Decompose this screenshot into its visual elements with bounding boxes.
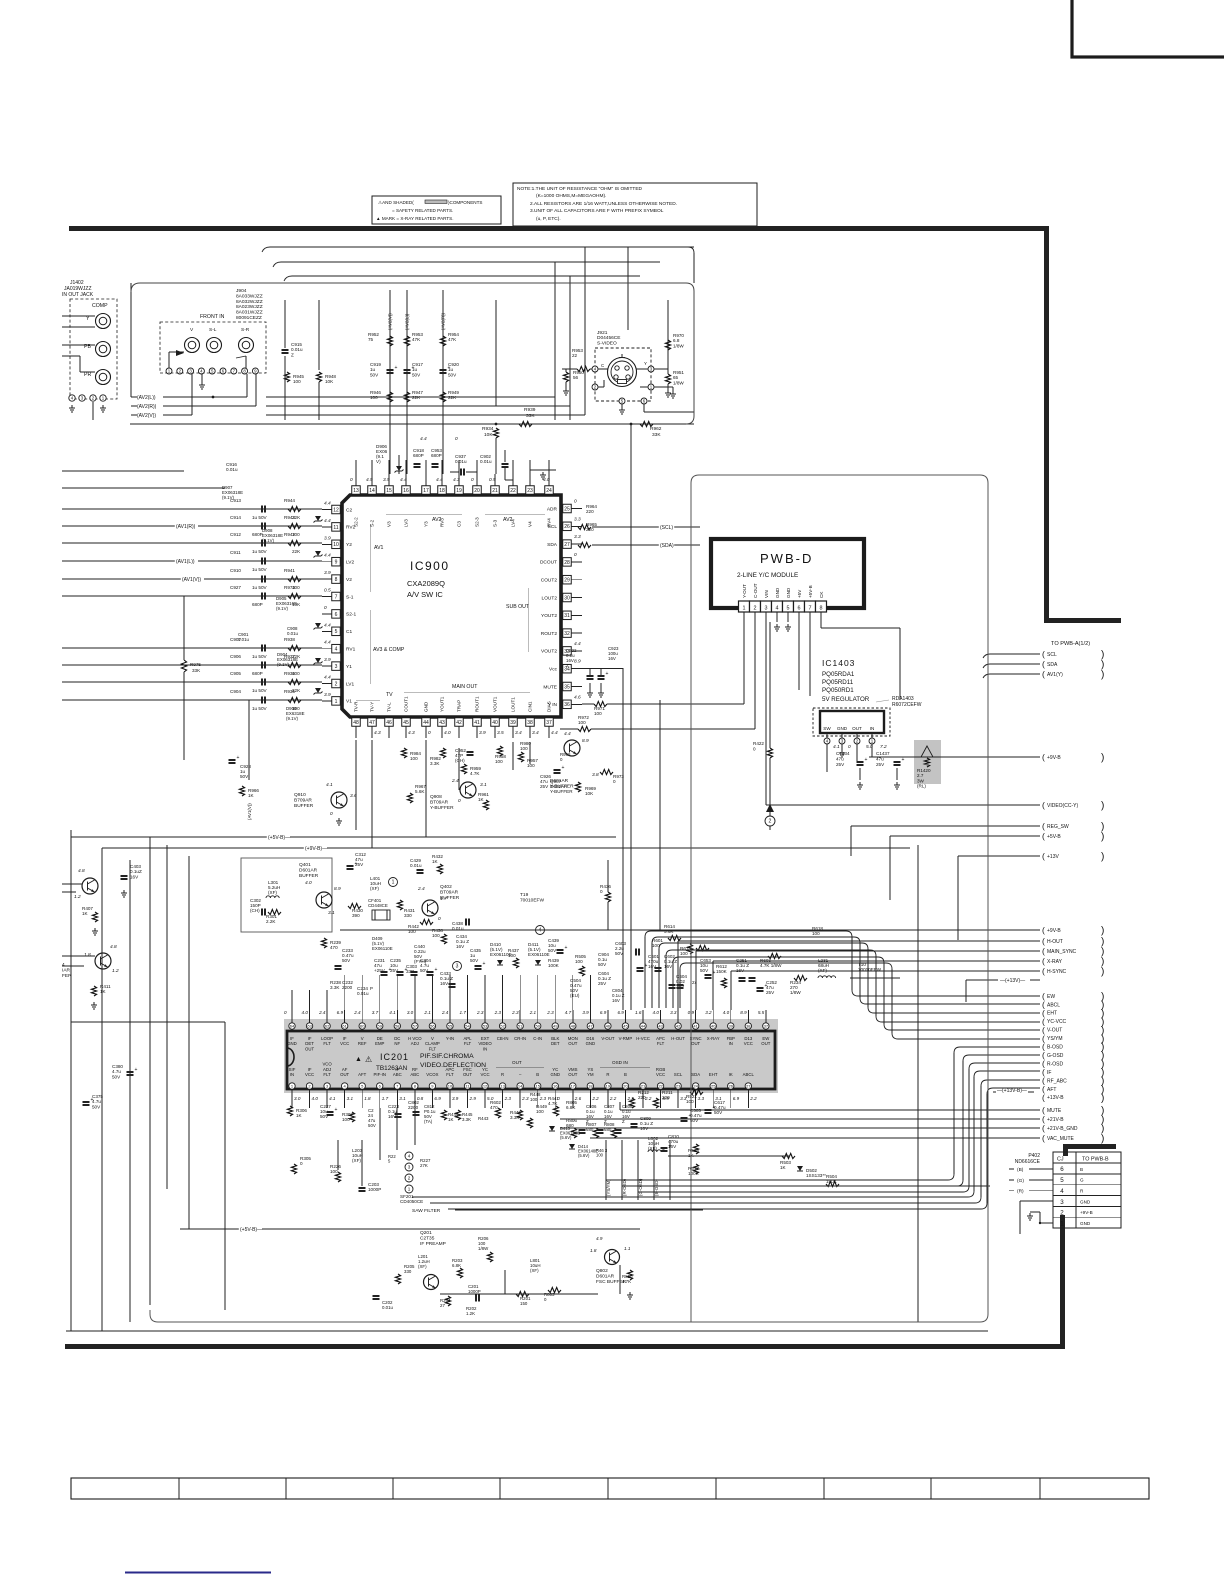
svg-text:IN: IN bbox=[870, 726, 875, 731]
svg-text:CD4050CE: CD4050CE bbox=[400, 1199, 423, 1204]
svg-text:G-OSD: G-OSD bbox=[1047, 1053, 1064, 1059]
svg-text:+21V-B: +21V-B bbox=[1047, 1117, 1064, 1123]
svg-text:15: 15 bbox=[386, 488, 392, 494]
svg-text:C905: C905 bbox=[230, 671, 241, 676]
svg-text:C927: C927 bbox=[230, 585, 241, 590]
svg-text:IN: IN bbox=[483, 1046, 487, 1051]
svg-text:0.5: 0.5 bbox=[324, 588, 331, 594]
svg-text:3.3K: 3.3K bbox=[430, 761, 440, 766]
svg-text:1K: 1K bbox=[248, 793, 255, 798]
svg-text:C3: C3 bbox=[457, 521, 462, 527]
svg-text:EW: EW bbox=[1047, 994, 1055, 1000]
svg-text:AV1(Y): AV1(Y) bbox=[1047, 672, 1063, 678]
svg-text:+: + bbox=[765, 983, 768, 989]
svg-text:7.2: 7.2 bbox=[880, 744, 887, 750]
svg-text:470: 470 bbox=[330, 945, 338, 950]
svg-text:(SDA): (SDA) bbox=[660, 543, 674, 549]
svg-text:TV: TV bbox=[386, 692, 393, 698]
svg-text:47: 47 bbox=[588, 1024, 593, 1029]
svg-text:4.4: 4.4 bbox=[420, 436, 427, 442]
svg-text:PR: PR bbox=[84, 372, 91, 378]
svg-text:150: 150 bbox=[520, 1301, 528, 1306]
svg-text:+: + bbox=[865, 757, 868, 763]
svg-text:1K: 1K bbox=[432, 859, 439, 864]
svg-text:(CH): (CH) bbox=[455, 758, 465, 763]
svg-text:ROUT2: ROUT2 bbox=[541, 631, 558, 637]
svg-text:3.1: 3.1 bbox=[399, 1096, 406, 1101]
svg-text:⚠AND SHADED(: ⚠AND SHADED( bbox=[378, 200, 414, 205]
svg-text:SDA: SDA bbox=[691, 1072, 700, 1077]
svg-text:(K=1000 OHMS,M=MEGAOHM).: (K=1000 OHMS,M=MEGAOHM). bbox=[536, 193, 606, 199]
svg-text:100: 100 bbox=[686, 1099, 694, 1104]
svg-text:GND: GND bbox=[775, 587, 780, 598]
svg-text:100: 100 bbox=[370, 395, 378, 400]
svg-text:▲: ▲ bbox=[355, 1056, 362, 1063]
svg-text:J921: J921 bbox=[597, 330, 608, 336]
svg-text:CR-IN: CR-IN bbox=[514, 1036, 526, 1041]
svg-text:S2-3: S2-3 bbox=[475, 517, 480, 527]
svg-text:0.01u: 0.01u bbox=[480, 459, 492, 464]
svg-text:T19: T19 bbox=[520, 892, 529, 898]
svg-text:15: 15 bbox=[535, 1084, 540, 1089]
svg-text:37: 37 bbox=[764, 1024, 769, 1029]
svg-text:OUT: OUT bbox=[691, 1041, 700, 1046]
svg-text:4: 4 bbox=[776, 606, 779, 612]
svg-text:17: 17 bbox=[571, 1084, 576, 1089]
svg-text:8A031WJZZ: 8A031WJZZ bbox=[236, 310, 263, 316]
svg-text:R962: R962 bbox=[650, 426, 662, 432]
svg-text:FLT: FLT bbox=[657, 1041, 665, 1046]
svg-text:21: 21 bbox=[492, 488, 498, 494]
svg-text:MUTE: MUTE bbox=[1047, 1108, 1062, 1114]
svg-text:25V: 25V bbox=[876, 762, 885, 767]
svg-text:33K: 33K bbox=[192, 668, 201, 673]
svg-text:LOUT2: LOUT2 bbox=[542, 595, 558, 601]
svg-text:4.7K: 4.7K bbox=[470, 771, 480, 776]
svg-text:3: 3 bbox=[408, 1165, 411, 1170]
svg-text:3.3: 3.3 bbox=[574, 534, 581, 540]
svg-text:(: ( bbox=[1042, 946, 1045, 956]
svg-text:GND: GND bbox=[786, 587, 791, 598]
svg-text:1u 50V: 1u 50V bbox=[252, 515, 267, 520]
svg-text:S-L: S-L bbox=[209, 327, 217, 333]
svg-text:4.4: 4.4 bbox=[324, 640, 331, 646]
svg-text:39: 39 bbox=[729, 1024, 734, 1029]
svg-text:1.2: 1.2 bbox=[74, 894, 81, 900]
svg-text:50V: 50V bbox=[240, 774, 249, 779]
svg-text:DCOUT: DCOUT bbox=[540, 560, 557, 566]
svg-text:C: C bbox=[601, 363, 604, 368]
svg-text:+: + bbox=[355, 861, 358, 867]
svg-text:3.1: 3.1 bbox=[480, 782, 487, 788]
svg-text:6.9: 6.9 bbox=[733, 1096, 740, 1101]
svg-text:X-RAY: X-RAY bbox=[707, 1036, 720, 1041]
svg-text:8.9: 8.9 bbox=[582, 738, 589, 744]
svg-text:0: 0 bbox=[574, 499, 577, 505]
svg-text:+: + bbox=[483, 961, 486, 967]
svg-text:6.9: 6.9 bbox=[617, 1010, 624, 1015]
svg-text:3.7: 3.7 bbox=[372, 1010, 379, 1015]
svg-text:(XF): (XF) bbox=[268, 890, 277, 895]
svg-text:3.8: 3.8 bbox=[592, 772, 599, 778]
svg-text:B: B bbox=[536, 1072, 539, 1077]
svg-text:▲ MARK = X-RAY RELATED PARTS.: ▲ MARK = X-RAY RELATED PARTS. bbox=[376, 216, 454, 221]
svg-text:62: 62 bbox=[325, 1024, 330, 1029]
svg-text:58: 58 bbox=[395, 1024, 400, 1029]
svg-text:(: ( bbox=[1042, 1123, 1045, 1133]
svg-text:3.5: 3.5 bbox=[497, 730, 504, 736]
svg-text:R939: R939 bbox=[524, 407, 536, 413]
svg-text:25: 25 bbox=[564, 506, 570, 512]
svg-text:4.0: 4.0 bbox=[444, 730, 451, 736]
svg-text:50V: 50V bbox=[470, 958, 479, 963]
svg-text:0: 0 bbox=[455, 436, 458, 442]
svg-text:1K: 1K bbox=[82, 911, 89, 916]
svg-text:+: + bbox=[91, 1097, 94, 1103]
svg-text:22: 22 bbox=[658, 1084, 663, 1089]
svg-text:Q910: Q910 bbox=[294, 792, 306, 798]
svg-text:YS/YM: YS/YM bbox=[1047, 1036, 1063, 1042]
svg-text:51: 51 bbox=[518, 1024, 523, 1029]
svg-text:22: 22 bbox=[572, 353, 578, 358]
svg-text:(AV2(R)): (AV2(R)) bbox=[137, 404, 157, 410]
svg-text:(SCL): (SCL) bbox=[660, 525, 673, 531]
svg-text:+13V: +13V bbox=[1047, 854, 1059, 860]
svg-text:2.4: 2.4 bbox=[318, 1010, 326, 1015]
svg-text:2.9: 2.9 bbox=[469, 1096, 477, 1101]
svg-text:Y-BUFFER: Y-BUFFER bbox=[430, 805, 454, 811]
svg-text:4.8: 4.8 bbox=[110, 944, 117, 950]
svg-text:LOUT1: LOUT1 bbox=[511, 697, 516, 712]
svg-text:C910: C910 bbox=[230, 568, 241, 573]
svg-text:22K: 22K bbox=[412, 395, 421, 400]
svg-text:): ) bbox=[1101, 832, 1104, 843]
svg-text:1/8W: 1/8W bbox=[790, 990, 801, 995]
svg-text:Y: Y bbox=[644, 361, 647, 366]
svg-text:OUT: OUT bbox=[340, 1072, 349, 1077]
svg-text:0.01u: 0.01u bbox=[287, 631, 299, 636]
svg-text:OSD IN: OSD IN bbox=[612, 1060, 628, 1065]
svg-text:56: 56 bbox=[573, 375, 579, 380]
svg-text:1: 1 bbox=[408, 1187, 411, 1192]
svg-text:Z: Z bbox=[622, 1119, 625, 1124]
svg-text:2.1: 2.1 bbox=[529, 1010, 537, 1015]
svg-text:IN OUT JACK: IN OUT JACK bbox=[62, 292, 94, 298]
svg-text:+5V-B: +5V-B bbox=[1047, 834, 1061, 840]
svg-text:GND: GND bbox=[837, 726, 848, 731]
svg-text:(AV1(V)): (AV1(V)) bbox=[182, 577, 201, 583]
svg-text:C2T35: C2T35 bbox=[420, 1236, 435, 1242]
svg-text:+13V-B: +13V-B bbox=[1047, 1095, 1064, 1101]
svg-text:X-RAY: X-RAY bbox=[1047, 959, 1063, 965]
svg-text:2.4: 2.4 bbox=[441, 1010, 449, 1015]
svg-text:1.8: 1.8 bbox=[84, 952, 91, 958]
svg-text:VCC: VCC bbox=[481, 1072, 490, 1077]
svg-text:24: 24 bbox=[546, 488, 552, 494]
svg-text:40: 40 bbox=[492, 720, 498, 726]
svg-text:18: 18 bbox=[439, 488, 445, 494]
svg-text:TO PWB-B: TO PWB-B bbox=[1082, 1157, 1109, 1163]
svg-text:MUTE: MUTE bbox=[543, 684, 557, 690]
svg-text:3.9: 3.9 bbox=[452, 1096, 459, 1101]
svg-text:2: 2 bbox=[408, 1176, 411, 1181]
svg-text:C1: C1 bbox=[346, 629, 352, 635]
svg-text:0.01u: 0.01u bbox=[238, 637, 250, 642]
svg-text:(+9V-B)—: (+9V-B)— bbox=[305, 846, 327, 852]
svg-text:2.4: 2.4 bbox=[417, 886, 425, 892]
svg-text:VOUT1: VOUT1 bbox=[493, 696, 498, 712]
svg-text:4.0: 4.0 bbox=[312, 1096, 319, 1101]
svg-text:(XF): (XF) bbox=[818, 968, 827, 973]
svg-text:100: 100 bbox=[594, 711, 602, 716]
svg-text:1u 50V: 1u 50V bbox=[252, 585, 267, 590]
svg-text:100: 100 bbox=[342, 1117, 350, 1122]
svg-text:R: R bbox=[606, 1072, 609, 1077]
svg-text:4.7: 4.7 bbox=[565, 1010, 572, 1015]
svg-text:Q201: Q201 bbox=[420, 1230, 432, 1236]
svg-text:4.0: 4.0 bbox=[302, 1010, 309, 1015]
svg-text:25V: 25V bbox=[766, 990, 775, 995]
svg-text:(+5V-B)—: (+5V-B)— bbox=[240, 1227, 262, 1233]
svg-text:38: 38 bbox=[746, 1024, 751, 1029]
svg-text:100: 100 bbox=[293, 379, 301, 384]
svg-text:4.7K: 4.7K bbox=[548, 1101, 558, 1106]
svg-text:26: 26 bbox=[729, 1084, 734, 1089]
svg-text:EHT: EHT bbox=[709, 1072, 718, 1077]
svg-text:3.4: 3.4 bbox=[532, 730, 539, 736]
svg-text:8A032WJZZ: 8A032WJZZ bbox=[236, 299, 263, 305]
svg-text:+: + bbox=[902, 757, 905, 763]
svg-text:Y IN: Y IN bbox=[548, 702, 558, 708]
svg-text:100: 100 bbox=[812, 931, 820, 936]
svg-text:4.1: 4.1 bbox=[326, 782, 333, 788]
svg-text:50V: 50V bbox=[412, 372, 421, 377]
svg-text:25V: 25V bbox=[836, 762, 845, 767]
svg-text:PQ050RD1: PQ050RD1 bbox=[822, 687, 854, 694]
svg-text:70010EFW: 70010EFW bbox=[520, 898, 544, 904]
svg-text:R943: R943 bbox=[284, 515, 295, 520]
svg-text:2.4: 2.4 bbox=[451, 778, 459, 784]
svg-text:R936: R936 bbox=[284, 671, 295, 676]
svg-text:6: 6 bbox=[335, 612, 338, 618]
svg-text:0: 0 bbox=[330, 811, 333, 817]
svg-text:1.8: 1.8 bbox=[590, 1248, 597, 1253]
svg-text:0: 0 bbox=[300, 1161, 303, 1166]
svg-text:13: 13 bbox=[500, 1084, 505, 1089]
svg-text:2.3: 2.3 bbox=[546, 1010, 554, 1015]
svg-text:2x: 2x bbox=[692, 980, 697, 985]
svg-text:C904: C904 bbox=[230, 689, 241, 694]
svg-text:47K: 47K bbox=[448, 337, 457, 342]
svg-text:AFT: AFT bbox=[1047, 1087, 1056, 1093]
svg-text:Y1: Y1 bbox=[346, 664, 352, 670]
svg-text:(9.1V): (9.1V) bbox=[222, 495, 234, 500]
svg-text:1u 50V: 1u 50V bbox=[252, 688, 267, 693]
svg-text:2.2: 2.2 bbox=[609, 1096, 617, 1101]
svg-text:C2: C2 bbox=[346, 507, 352, 513]
svg-text:11: 11 bbox=[333, 525, 338, 531]
svg-text:50V: 50V bbox=[370, 372, 379, 377]
svg-text:1/8W: 1/8W bbox=[478, 1246, 489, 1251]
svg-text:OUT: OUT bbox=[568, 1041, 577, 1046]
svg-text:CK: CK bbox=[819, 591, 824, 598]
svg-text:J904: J904 bbox=[236, 288, 247, 294]
svg-text:COUT2: COUT2 bbox=[541, 578, 558, 584]
svg-text:4: 4 bbox=[335, 647, 338, 653]
svg-text:(R-OSD): (R-OSD) bbox=[622, 1178, 627, 1196]
svg-text:Q802: Q802 bbox=[596, 1268, 608, 1274]
svg-text:0: 0 bbox=[574, 552, 577, 558]
svg-text:12: 12 bbox=[333, 507, 339, 513]
svg-text:R203: R203 bbox=[496, 1261, 497, 1262]
svg-text:7: 7 bbox=[335, 594, 338, 600]
svg-text:3.1: 3.1 bbox=[347, 1096, 354, 1101]
svg-text:9: 9 bbox=[335, 560, 338, 566]
svg-text:Z: Z bbox=[291, 352, 294, 357]
svg-text:): ) bbox=[1101, 1093, 1104, 1104]
svg-text:(9.1V): (9.1V) bbox=[262, 538, 274, 543]
svg-text:Q401: Q401 bbox=[299, 862, 311, 868]
svg-text:(+5V-B)—: (+5V-B)— bbox=[268, 835, 290, 841]
svg-text:1K: 1K bbox=[478, 797, 485, 802]
svg-text:23: 23 bbox=[676, 1084, 681, 1089]
svg-text:6.8K: 6.8K bbox=[566, 1105, 576, 1110]
svg-text:4.4: 4.4 bbox=[324, 518, 331, 524]
svg-text:ROUT1: ROUT1 bbox=[475, 696, 480, 712]
svg-text:14: 14 bbox=[369, 488, 375, 494]
svg-text:ABC: ABC bbox=[410, 1072, 419, 1077]
svg-text:EX06110E: EX06110E bbox=[372, 946, 393, 951]
svg-text:S-R: S-R bbox=[241, 327, 250, 333]
svg-text:100: 100 bbox=[432, 933, 440, 938]
svg-text:6: 6 bbox=[1060, 1166, 1064, 1173]
svg-text:RF_ABC: RF_ABC bbox=[1047, 1078, 1067, 1084]
svg-text:FLT: FLT bbox=[429, 1046, 437, 1051]
svg-text:S-1: S-1 bbox=[346, 594, 354, 600]
svg-text:35: 35 bbox=[564, 684, 570, 690]
svg-text:4.7K: 4.7K bbox=[622, 1279, 631, 1284]
svg-text:5: 5 bbox=[1060, 1177, 1064, 1184]
svg-text:IC1403: IC1403 bbox=[822, 658, 855, 668]
svg-text:50V: 50V bbox=[448, 372, 457, 377]
svg-text:50V: 50V bbox=[598, 962, 607, 967]
svg-text:R975: R975 bbox=[190, 662, 201, 667]
svg-text:680P: 680P bbox=[252, 671, 263, 676]
svg-text:27: 27 bbox=[440, 1303, 445, 1308]
svg-text:50V: 50V bbox=[368, 1123, 376, 1128]
svg-text:IF PREAMP: IF PREAMP bbox=[420, 1241, 446, 1247]
svg-text:16V: 16V bbox=[608, 656, 616, 661]
svg-text:1.7: 1.7 bbox=[440, 896, 447, 902]
svg-text:4: 4 bbox=[1060, 1188, 1064, 1195]
svg-text:2.2: 2.2 bbox=[591, 1096, 599, 1101]
svg-text:VCC: VCC bbox=[305, 1072, 314, 1077]
svg-text:55: 55 bbox=[448, 1024, 453, 1029]
svg-text:SAW FILTER: SAW FILTER bbox=[412, 1208, 441, 1214]
svg-text:LV3: LV3 bbox=[404, 519, 409, 527]
svg-text:2.2: 2.2 bbox=[749, 1096, 757, 1101]
svg-text:VAC_MUTE: VAC_MUTE bbox=[1047, 1136, 1075, 1142]
svg-text:36: 36 bbox=[564, 702, 570, 708]
svg-text:100: 100 bbox=[520, 746, 528, 751]
svg-text:Y2: Y2 bbox=[346, 542, 352, 548]
svg-text:TB1263AN: TB1263AN bbox=[376, 1065, 408, 1072]
svg-text:53: 53 bbox=[483, 1024, 488, 1029]
svg-text:AV2: AV2 bbox=[432, 517, 442, 523]
svg-text:+: + bbox=[435, 967, 438, 973]
svg-text:4.1: 4.1 bbox=[833, 744, 840, 750]
svg-text:59: 59 bbox=[378, 1024, 383, 1029]
svg-text:OUT: OUT bbox=[305, 1046, 314, 1051]
svg-text:R6072CEFW: R6072CEFW bbox=[892, 702, 922, 708]
svg-text:61: 61 bbox=[342, 1024, 347, 1029]
svg-text:27: 27 bbox=[746, 1084, 751, 1089]
svg-text:V-RMP: V-RMP bbox=[619, 1036, 633, 1041]
svg-text:4.4: 4.4 bbox=[324, 675, 331, 681]
svg-text:SDA: SDA bbox=[547, 542, 558, 548]
svg-text:TV-L: TV-L bbox=[387, 702, 392, 712]
svg-text:0: 0 bbox=[471, 477, 474, 483]
svg-text:27: 27 bbox=[564, 542, 570, 548]
svg-text:4.4: 4.4 bbox=[551, 730, 558, 736]
svg-text:100: 100 bbox=[536, 1109, 544, 1114]
svg-text:41: 41 bbox=[474, 720, 480, 726]
svg-text:(5.6V): (5.6V) bbox=[578, 1153, 590, 1158]
svg-text:30: 30 bbox=[564, 595, 570, 601]
svg-text:5V REGULATOR: 5V REGULATOR bbox=[822, 696, 870, 703]
svg-text:1u 50V: 1u 50V bbox=[252, 567, 267, 572]
svg-text:150K: 150K bbox=[716, 969, 728, 974]
svg-text:RV1: RV1 bbox=[346, 647, 356, 653]
svg-text:4.4: 4.4 bbox=[574, 641, 581, 647]
svg-text:0.01u: 0.01u bbox=[357, 991, 369, 996]
svg-text:EHT: EHT bbox=[1047, 1011, 1057, 1017]
svg-text:SW: SW bbox=[823, 726, 831, 731]
svg-text:0.5: 0.5 bbox=[489, 477, 496, 483]
svg-text:6.9: 6.9 bbox=[600, 1010, 607, 1015]
svg-text:VIDEO(CC-Y): VIDEO(CC-Y) bbox=[1047, 803, 1078, 809]
svg-text:25V: 25V bbox=[598, 981, 607, 986]
svg-text:MAIN_SYNC: MAIN_SYNC bbox=[1047, 949, 1077, 955]
svg-text:V: V bbox=[190, 327, 194, 333]
svg-text:3.9: 3.9 bbox=[479, 730, 486, 736]
svg-text:Q402: Q402 bbox=[440, 884, 452, 890]
svg-text:V3: V3 bbox=[387, 521, 392, 527]
svg-text:100: 100 bbox=[578, 720, 586, 725]
svg-text:(AV1(L)): (AV1(L)) bbox=[176, 559, 195, 565]
svg-text:CD448CE: CD448CE bbox=[368, 903, 388, 908]
svg-text:+5V-B: +5V-B bbox=[808, 585, 813, 598]
svg-text:(: ( bbox=[1042, 925, 1045, 935]
svg-text:Y3: Y3 bbox=[424, 521, 429, 527]
svg-text:(5.6V): (5.6V) bbox=[560, 1135, 572, 1140]
svg-text:0: 0 bbox=[350, 477, 353, 483]
svg-text:R935: R935 bbox=[284, 689, 295, 694]
svg-text:100: 100 bbox=[495, 759, 503, 764]
svg-text:3.9: 3.9 bbox=[383, 477, 390, 483]
svg-text:(: ( bbox=[1042, 800, 1045, 810]
svg-text:4.8: 4.8 bbox=[78, 868, 85, 874]
svg-text:5: 5 bbox=[335, 629, 338, 635]
svg-text:3.9: 3.9 bbox=[324, 692, 331, 698]
svg-text:FLT: FLT bbox=[323, 1072, 331, 1077]
svg-text:1: 1 bbox=[743, 606, 746, 612]
svg-text:64: 64 bbox=[290, 1024, 295, 1029]
svg-text:4.4: 4.4 bbox=[324, 622, 331, 628]
svg-text:16: 16 bbox=[553, 1084, 558, 1089]
svg-text:3.3K: 3.3K bbox=[462, 1117, 471, 1122]
svg-text:COUT1: COUT1 bbox=[404, 696, 409, 712]
